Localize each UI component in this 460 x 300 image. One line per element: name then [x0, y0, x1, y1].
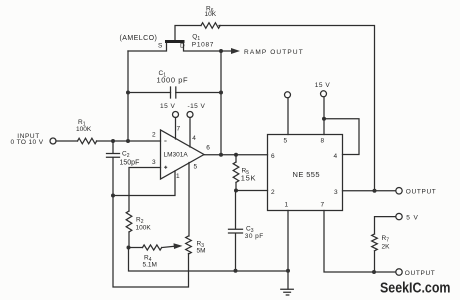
node pin3/rail junction — [373, 189, 377, 193]
capacitor C1 1000pF — [128, 92, 221, 94]
terminal OUTPUT (pin3) — [396, 188, 402, 194]
svg-text:6: 6 — [271, 153, 275, 160]
svg-text:1: 1 — [176, 173, 180, 180]
wire top net from gate to R6 to right rail — [175, 26, 375, 191]
svg-text:1000 pF: 1000 pF — [157, 76, 189, 85]
resistor R6 — [201, 23, 220, 29]
svg-text:D: D — [180, 43, 185, 50]
svg-text:S: S — [158, 43, 163, 50]
resistor R4 5.1M with wiper arrow to R3 — [129, 247, 143, 249]
wire lower ground rail from R2 to NE555 pin1 — [129, 248, 289, 272]
svg-text:15K: 15K — [241, 174, 256, 183]
wire left vertical from S leg down to input node — [127, 51, 129, 141]
resistor R2 100K — [126, 211, 132, 232]
svg-text:3: 3 — [152, 159, 156, 166]
svg-text:OUTPUT: OUTPUT — [406, 189, 437, 196]
node pin1/C2 junction — [111, 194, 115, 198]
svg-text:3: 3 — [334, 189, 338, 196]
svg-text:0 TO 10 V: 0 TO 10 V — [11, 139, 44, 146]
svg-text:4: 4 — [192, 135, 196, 142]
svg-text:4: 4 — [334, 153, 338, 160]
resistor R7 2K — [372, 234, 378, 251]
wire ramp output stub with arrow — [221, 50, 231, 52]
wire C2 node down and around to R3 bottom — [113, 196, 189, 288]
svg-text:RAMP OUTPUT: RAMP OUTPUT — [244, 49, 304, 56]
wire NE555 pin7 to lower output — [324, 211, 396, 273]
wire to NE555 pin 2 — [236, 190, 268, 192]
resistor R1 100K — [56, 140, 78, 142]
svg-text:15 V: 15 V — [315, 82, 331, 89]
svg-text:2: 2 — [152, 131, 156, 138]
capacitor C3 30pF — [235, 191, 237, 271]
svg-text:R7: R7 — [382, 235, 390, 244]
terminal OUTPUT (pin7) — [396, 269, 402, 275]
capacitor C2 150pF — [112, 141, 114, 196]
svg-text:SeekIC.com: SeekIC.com — [380, 281, 451, 297]
wire op-amp output to NE555 pin6 — [204, 154, 268, 156]
svg-text:C2: C2 — [122, 151, 130, 160]
svg-text:15 V: 15 V — [160, 103, 176, 110]
wire op-amp pin5 down to R3 — [188, 163, 190, 237]
svg-text:100K: 100K — [136, 225, 152, 232]
terminal pin5 bypass (open) — [287, 98, 289, 135]
svg-text:8: 8 — [321, 138, 325, 145]
node R7/pin7/output junction — [372, 270, 376, 274]
wire NE555 pin3 output — [343, 190, 396, 192]
svg-text:100K: 100K — [76, 126, 92, 133]
svg-text:P1087: P1087 — [192, 41, 214, 48]
svg-text:10K: 10K — [205, 11, 217, 18]
svg-text:5M: 5M — [197, 248, 206, 255]
svg-text:5.1M: 5.1M — [143, 262, 157, 269]
svg-text:150pF: 150pF — [120, 160, 140, 167]
svg-text:2: 2 — [271, 189, 275, 196]
wire 5V to R7 — [375, 217, 396, 234]
svg-text:7: 7 — [321, 202, 325, 209]
svg-text:5: 5 — [194, 164, 198, 171]
svg-text:6: 6 — [206, 145, 210, 152]
ground — [281, 289, 294, 295]
terminal 5V — [396, 213, 402, 219]
svg-text:5: 5 — [284, 138, 288, 145]
svg-text:7: 7 — [177, 126, 181, 133]
node input summing junction dots — [111, 139, 115, 143]
wire op-amp pin1 down-left to C2 node — [113, 171, 175, 196]
transistor Q1 (FET, AMELCO P1087) — [165, 40, 185, 43]
resistor R3 5M (pot) — [186, 236, 192, 254]
node R5/C3/pin2 junction — [234, 189, 238, 193]
svg-text:-15 V: -15 V — [188, 103, 206, 110]
wire NE555 pin1 to ground — [287, 211, 289, 290]
wire right vertical from D junction down to op-amp output line — [220, 51, 222, 155]
wire pin8 to pin4 reset tie — [324, 119, 359, 155]
node pin8/pin4 tie — [322, 117, 326, 121]
node ramp output junction — [219, 49, 223, 53]
node R2/R4 junction — [127, 246, 131, 250]
svg-text:LM301A: LM301A — [164, 152, 189, 159]
svg-text:NE 555: NE 555 — [293, 170, 320, 179]
wire op-amp pin3 to R2 — [129, 168, 161, 212]
svg-text:OUTPUT: OUTPUT — [405, 270, 436, 277]
IC U2 NE555 — [268, 135, 343, 211]
svg-text:(AMELCO): (AMELCO) — [120, 35, 158, 42]
svg-text:5 V: 5 V — [406, 215, 418, 222]
op-amp U1 LM301A — [161, 130, 205, 179]
svg-text:1: 1 — [285, 202, 289, 209]
svg-text:30 pF: 30 pF — [245, 233, 264, 240]
svg-text:2K: 2K — [382, 244, 391, 251]
resistor R5 15K — [235, 155, 237, 162]
